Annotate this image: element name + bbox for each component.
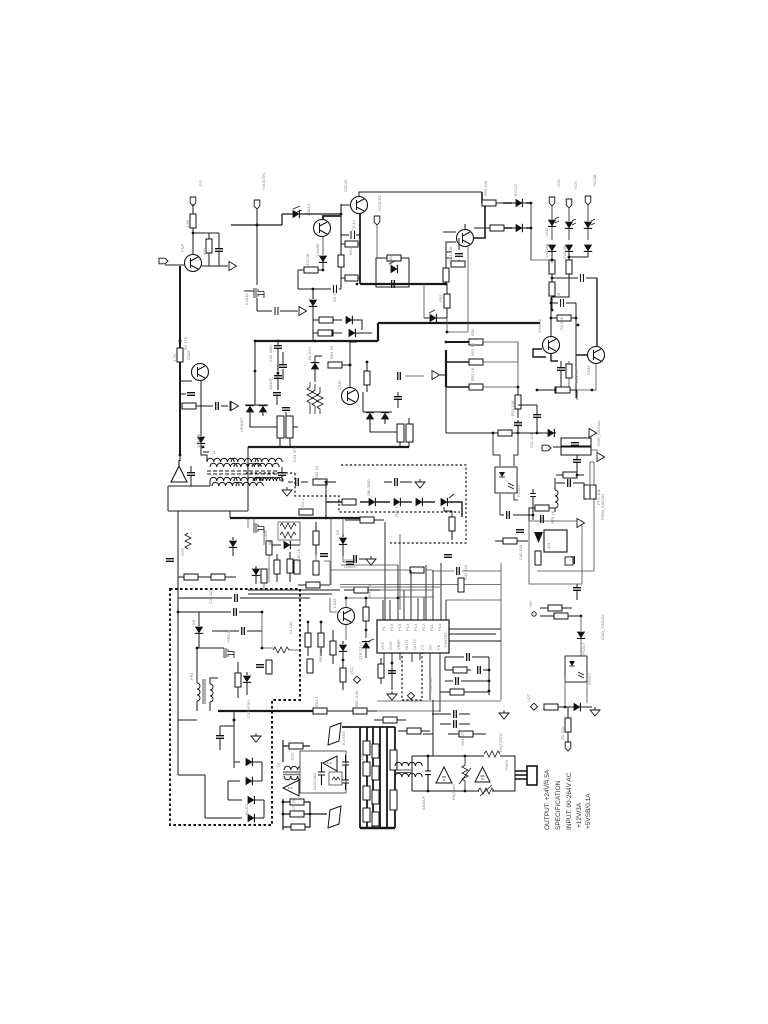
svg-text:P13: P13: [413, 623, 418, 631]
small rect: [565, 557, 573, 565]
wire q11: [330, 598, 398, 640]
resistor R42: [287, 559, 293, 573]
svg-text:R49 1K: R49 1K: [367, 583, 372, 597]
svg-text:ZD 20V: ZD 20V: [560, 726, 565, 740]
inductor L3: [273, 647, 289, 653]
capacitor C5: [334, 285, 337, 293]
svg-text:P12: P12: [421, 623, 426, 631]
svg-text:C16 400V: C16 400V: [268, 344, 273, 362]
ground gnd10: [590, 707, 600, 716]
resistor R53: [363, 607, 369, 621]
wire thick y518: [230, 517, 370, 519]
capacitor C27: [354, 555, 357, 563]
svg-text:P MB: P MB: [542, 780, 547, 790]
diode D12: [548, 245, 556, 252]
wire thick y341: [255, 340, 378, 342]
svg-text:C40 104: C40 104: [518, 544, 523, 560]
wire x594: [537, 462, 594, 571]
parallelogram conn 2: [328, 806, 341, 828]
capacitor C18: [273, 393, 281, 396]
capacitor CF3: [342, 772, 349, 790]
output rect diode DR1: [369, 498, 376, 506]
terminal +12V: [566, 199, 572, 208]
svg-text:R41 10K: R41 10K: [448, 246, 453, 262]
svg-text:GND_SIGNAL: GND_SIGNAL: [600, 613, 605, 640]
wire j3: [256, 209, 258, 311]
svg-text:EA(T)AG: EA(T)AG: [451, 784, 456, 800]
opto U3: [495, 467, 517, 493]
feedback resistor RF4: [291, 824, 305, 830]
resistor R55: [378, 664, 384, 678]
svg-text:2SA9: 2SA9: [186, 349, 191, 360]
diode D20: [284, 541, 291, 549]
snubber loop: [376, 258, 409, 287]
capacitor C37: [216, 736, 224, 739]
ground arrow left: [231, 402, 239, 411]
svg-text:+310VDC: +310VDC: [377, 194, 382, 212]
capacitor C51: [514, 420, 522, 433]
capacitor C7a: [341, 231, 360, 239]
fuse zig top: [484, 751, 500, 757]
wire feeders: [474, 192, 531, 238]
resistor R26: [563, 472, 577, 478]
capacitor C50: [467, 653, 470, 661]
resistor R64: [318, 633, 324, 647]
svg-text:GND: GND: [388, 641, 393, 650]
ic U4: [544, 530, 567, 552]
zigzag R38: [280, 523, 296, 529]
diode D4 row1: [346, 316, 353, 324]
capacitor C33: [235, 594, 238, 602]
svg-text:VCC: VCC: [380, 641, 385, 650]
resistor R49: [354, 587, 368, 593]
wire net: [531, 203, 552, 263]
wire y289: [298, 270, 341, 289]
wire grey loop: [447, 247, 468, 332]
bus ladder: [360, 727, 395, 828]
capacitor C20: [394, 397, 402, 400]
diamond opt: [407, 692, 414, 699]
svg-text:P14: P14: [405, 623, 410, 631]
ladder resistor RL1: [363, 741, 370, 755]
svg-text:P15: P15: [397, 623, 402, 631]
svg-text:R24 10K: R24 10K: [510, 400, 515, 416]
capacitor C32: [454, 720, 457, 728]
diode D8: [430, 314, 437, 322]
svg-text:C11 104: C11 104: [529, 432, 534, 448]
capacitor C38: [425, 756, 431, 791]
zigzag RZ1: [307, 387, 313, 403]
diode D21: [252, 569, 260, 576]
resistor R54: [340, 668, 346, 682]
connector P1: [515, 771, 527, 779]
terminal J3: [254, 200, 260, 209]
wire x551 x576: [551, 297, 576, 398]
capacitor C6: [279, 365, 287, 368]
resistor R65: [330, 641, 336, 655]
svg-text:2SC45: 2SC45: [343, 179, 348, 192]
resistor R30: [328, 362, 342, 368]
svg-text:L3 10U: L3 10U: [288, 621, 293, 634]
resistor RW3: [397, 424, 404, 442]
svg-text:PC817: PC817: [581, 642, 586, 655]
arrow2: [597, 453, 605, 462]
capacitor C17: [274, 376, 282, 379]
diode D25: [243, 676, 251, 683]
resistor R36: [299, 509, 313, 515]
ladder resistor RL6: [372, 790, 379, 804]
svg-text:4.7K: 4.7K: [172, 353, 177, 362]
svg-text:R63 150: R63 150: [318, 646, 323, 662]
resistor R44: [261, 569, 267, 583]
wire y590: [248, 590, 340, 594]
svg-text:FR107: FR107: [226, 629, 231, 642]
wire y214: [231, 214, 341, 225]
resistor R7: [338, 255, 344, 267]
svg-text:620: 620: [348, 248, 353, 255]
wire x341: [341, 204, 351, 256]
svg-text:R75: R75: [290, 752, 295, 760]
svg-text:R62 3.3K: R62 3.3K: [354, 690, 359, 707]
resistor R2: [177, 348, 183, 362]
wire pr1: [178, 612, 224, 720]
amp tri 1: [283, 780, 299, 796]
capacitor C52: [530, 489, 536, 515]
wire emitter row: [202, 233, 228, 266]
terminal RUBOUT: [542, 445, 551, 451]
resistor R33: [313, 479, 327, 485]
capacitor C11: [533, 415, 541, 418]
svg-text:+5V: +5V: [528, 600, 533, 608]
zener ZD2: [362, 642, 370, 649]
svg-text:P10: P10: [437, 623, 442, 631]
capacitor C29: [478, 666, 481, 674]
svg-text:VCC: VCC: [526, 693, 531, 702]
varistor Z1: [462, 765, 468, 781]
svg-text:820 2K: 820 2K: [305, 253, 310, 266]
svg-text:C31 331: C31 331: [428, 676, 433, 692]
varistor Z2 bottom: [478, 788, 494, 794]
resistor R59: [450, 689, 464, 695]
svg-text:P1: P1: [381, 625, 386, 631]
svg-text:R79 1K: R79 1K: [550, 510, 555, 524]
arrow gnd sig: [577, 519, 585, 528]
capacitor C7: [455, 254, 463, 257]
+5V circle: [532, 612, 536, 616]
svg-text:+5VSB: +5VSB: [592, 174, 597, 187]
svg-text:ZD 5.1: ZD 5.1: [332, 289, 337, 302]
choke T5: [395, 762, 422, 766]
svg-text:OUT1: OUT1: [404, 639, 409, 650]
svg-text:R66 1K: R66 1K: [329, 345, 334, 359]
svg-text:+310VDC: +310VDC: [261, 172, 266, 190]
diode D5 row2: [349, 329, 356, 337]
svg-text:BYV27: BYV27: [513, 183, 518, 196]
wire q8 emitter: [569, 364, 596, 390]
resistor R69: [535, 551, 541, 565]
wire left col: [245, 341, 255, 405]
ladder resistor RL5: [363, 786, 370, 800]
diode D1: [197, 437, 205, 444]
diode D30: [577, 632, 585, 639]
inductor L2: [555, 490, 558, 508]
wire q7: [533, 349, 587, 361]
spec text block: [544, 769, 592, 830]
svg-text:OUT2: OUT2: [412, 639, 417, 650]
wire x433: [423, 700, 433, 756]
transistor Q9: [342, 388, 359, 405]
resistor R77: [211, 574, 225, 580]
pin collector wires: [330, 518, 501, 600]
wire cluster: [248, 518, 330, 590]
resistor R62: [407, 728, 421, 734]
dashed box left standby: [170, 589, 300, 825]
amp tri 2: [323, 756, 337, 771]
resistor R22: [469, 359, 483, 365]
svg-text:820: 820: [202, 248, 207, 255]
opto U5: [565, 656, 587, 682]
resistor R17: [549, 282, 555, 296]
wire thick x446: [445, 350, 447, 387]
diode pair D19: [381, 413, 389, 420]
resistor R47: [410, 567, 424, 573]
wire dr4 to r35: [444, 494, 454, 517]
ground gnd8: [251, 733, 261, 742]
transistor Q6: [457, 230, 474, 247]
resistor R79: [535, 505, 549, 511]
terminal J2: [159, 258, 168, 264]
svg-text:+5VSB/0.1A: +5VSB/0.1A: [585, 793, 592, 829]
wire left col: [179, 266, 181, 455]
resistor R66: [266, 660, 272, 674]
connector block K1: [561, 438, 591, 446]
node: [233, 719, 236, 722]
capacitor C10: [557, 368, 565, 371]
svg-text:RL207: RL207: [244, 802, 249, 815]
svg-text:ZTR 22V2: ZTR 22V2: [358, 641, 363, 660]
svg-text:+24V: +24V: [556, 178, 561, 188]
resistor R48: [306, 582, 320, 588]
wire y278: [552, 277, 597, 279]
diode D31: [574, 703, 581, 711]
resistor R10: [482, 200, 496, 206]
resistor R61: [383, 717, 397, 723]
svg-text:SBL3040: SBL3040: [366, 479, 371, 496]
capacitor C46: [346, 562, 354, 565]
feedback resistor RF3: [290, 811, 304, 817]
transistor Q8: [588, 347, 605, 364]
capacitor C6a: [275, 307, 278, 315]
out block rect: [412, 756, 515, 791]
svg-text:C945: C945: [337, 380, 342, 390]
resistor R57: [353, 708, 367, 714]
ground gnd3: [282, 487, 292, 496]
capacitor C23: [278, 473, 286, 476]
transistor Q7: [543, 337, 560, 354]
capacitor C43: [457, 567, 460, 575]
feedback resistor RF2: [290, 799, 304, 805]
wire thick y323: [378, 322, 540, 324]
svg-text:R4 1: R4 1: [300, 498, 305, 507]
svg-text:UF4007: UF4007: [239, 417, 244, 432]
ground gnd7: [499, 710, 509, 719]
wire x178: [177, 511, 179, 598]
dashed box output rect: [341, 465, 466, 543]
resistor R68: [503, 538, 517, 544]
svg-text:NTC: NTC: [180, 548, 185, 556]
resistor R31: [364, 371, 370, 385]
resistor RW1: [277, 416, 284, 438]
capacitor C14: [573, 460, 581, 463]
MOSFET Q5: [254, 288, 264, 298]
svg-text:OUTPUT: +24V/4.5A: OUTPUT: +24V/4.5A: [544, 769, 551, 830]
svg-text:FG: FG: [198, 180, 203, 186]
ladder resistor RL4: [372, 766, 379, 780]
diode D32: [391, 265, 398, 273]
MOSFET Q12: [224, 648, 234, 658]
caps column C16: [274, 346, 282, 349]
resistor R63b: [307, 659, 313, 673]
capacitor C42: [573, 588, 581, 591]
ground triangle big: [171, 460, 187, 482]
svg-text:K1358: K1358: [263, 530, 268, 542]
parallelogram conn 1: [328, 723, 341, 745]
capacitor C40: [516, 530, 524, 533]
resistor RF1: [289, 743, 303, 749]
resistor R41: [274, 560, 280, 574]
svg-text:FA(T)250V: FA(T)250V: [498, 732, 503, 752]
svg-text:PNP: PNP: [180, 243, 185, 252]
capacitor C30: [456, 677, 459, 685]
terminal +5VSB: [585, 196, 591, 205]
output rect diode DR4: [441, 498, 448, 506]
svg-text:LM385: LM385: [315, 243, 320, 256]
wire opto: [493, 433, 518, 515]
resistor R46: [313, 561, 319, 575]
resistor R12: [451, 261, 465, 267]
LED D10: [565, 222, 573, 229]
resistor R78: [387, 255, 401, 261]
resistor R67: [235, 673, 241, 687]
wire thick x378: [377, 323, 379, 341]
resistor R20b: [555, 387, 569, 393]
svg-text:T4: T4: [276, 763, 281, 768]
svg-text:R19 2K: R19 2K: [574, 369, 579, 383]
resistor R71: [554, 613, 568, 619]
resistor R72: [544, 704, 558, 710]
ladder resistor RL8: [372, 812, 379, 826]
svg-text:1N4148: 1N4148: [196, 433, 201, 448]
diode pair D18: [366, 413, 374, 420]
ground arrow: [229, 262, 237, 271]
capacitor C12: [514, 423, 522, 426]
svg-text:180UF: 180UF: [268, 377, 273, 390]
diode D28: [248, 796, 255, 804]
svg-text:R50: R50: [470, 328, 475, 336]
capacitor C26: [320, 554, 328, 557]
resistor R25: [556, 387, 570, 393]
svg-text:PC817: PC817: [516, 484, 521, 497]
zener ZD1: [311, 363, 319, 370]
resistor R43: [294, 560, 300, 574]
wire: [165, 204, 218, 265]
resistor R29 row: [318, 330, 332, 336]
tl431 block: diode big: [534, 532, 543, 543]
resistor R70: [548, 605, 562, 611]
svg-text:2N4403: 2N4403: [537, 318, 542, 333]
arrow left: [432, 371, 440, 380]
svg-text:R2 47K: R2 47K: [183, 336, 188, 350]
diode D2: [293, 210, 300, 218]
rc right of ic : resistor R58: [453, 667, 467, 673]
node: [322, 269, 325, 272]
svg-text:R40 2K: R40 2K: [296, 548, 301, 562]
svg-text:C43 104: C43 104: [463, 564, 468, 580]
svg-text:LED: LED: [544, 228, 549, 236]
wire: [350, 342, 357, 387]
diode pair D17: [259, 406, 267, 413]
LED D9: [548, 220, 556, 227]
resistor R40: [266, 541, 272, 555]
svg-text:K4 FAN: K4 FAN: [341, 731, 346, 745]
zener ZD4: [309, 300, 317, 307]
svg-text:D8: D8: [191, 619, 196, 625]
svg-text:R60 100: R60 100: [483, 180, 488, 196]
svg-text:1N4148: 1N4148: [562, 245, 567, 260]
svg-text:R37 1: R37 1: [394, 506, 399, 517]
svg-text:R62: R62: [438, 294, 443, 302]
capacitor C19: [282, 408, 290, 411]
svg-text:3147UAG: 3147UAG: [312, 772, 317, 790]
LED D11: [584, 222, 592, 229]
resistor R80: [498, 430, 512, 436]
small rect sq: [329, 772, 342, 785]
svg-text:SPECIFICATION: SPECIFICATION: [555, 780, 562, 830]
resistor R45: [313, 531, 319, 545]
resistor R21: [469, 339, 483, 345]
wire x531 down: [530, 228, 532, 260]
diode D15: [548, 429, 555, 437]
resistor R35 vert: [449, 517, 455, 531]
svg-text:T1: T1: [211, 450, 216, 455]
terminal +B: [374, 216, 380, 225]
svg-text:PWM_SIGNAL: PWM_SIGNAL: [600, 493, 605, 520]
capacitor C22: [187, 473, 195, 476]
wire sec left: [168, 452, 248, 511]
zigzag R39: [280, 532, 296, 538]
ground arrow: [230, 402, 238, 411]
ladder resistor RL7: [363, 808, 370, 822]
wire y701: [377, 700, 501, 702]
svg-text:C33 222: C33 222: [208, 588, 213, 604]
wire q4 collector: [323, 216, 341, 219]
capacitor C21: [398, 372, 401, 380]
svg-text:BY459: BY459: [388, 253, 393, 266]
svg-text:R2 62K: R2 62K: [559, 316, 564, 330]
svg-text:C8: C8: [556, 292, 561, 298]
transformer T1 primary: [207, 458, 234, 462]
svg-text:K2645: K2645: [244, 293, 249, 305]
wire top rows: [178, 598, 310, 612]
resistor R20: [206, 239, 212, 253]
transistor Q11: [338, 608, 355, 625]
svg-text:C9 1n: C9 1n: [351, 220, 356, 231]
resistor R27: [584, 485, 590, 499]
transformer core: [207, 471, 277, 474]
svg-text:P11: P11: [429, 623, 434, 631]
svg-text:1N4148: 1N4148: [544, 243, 549, 258]
zigzag RZ2: [312, 390, 318, 406]
